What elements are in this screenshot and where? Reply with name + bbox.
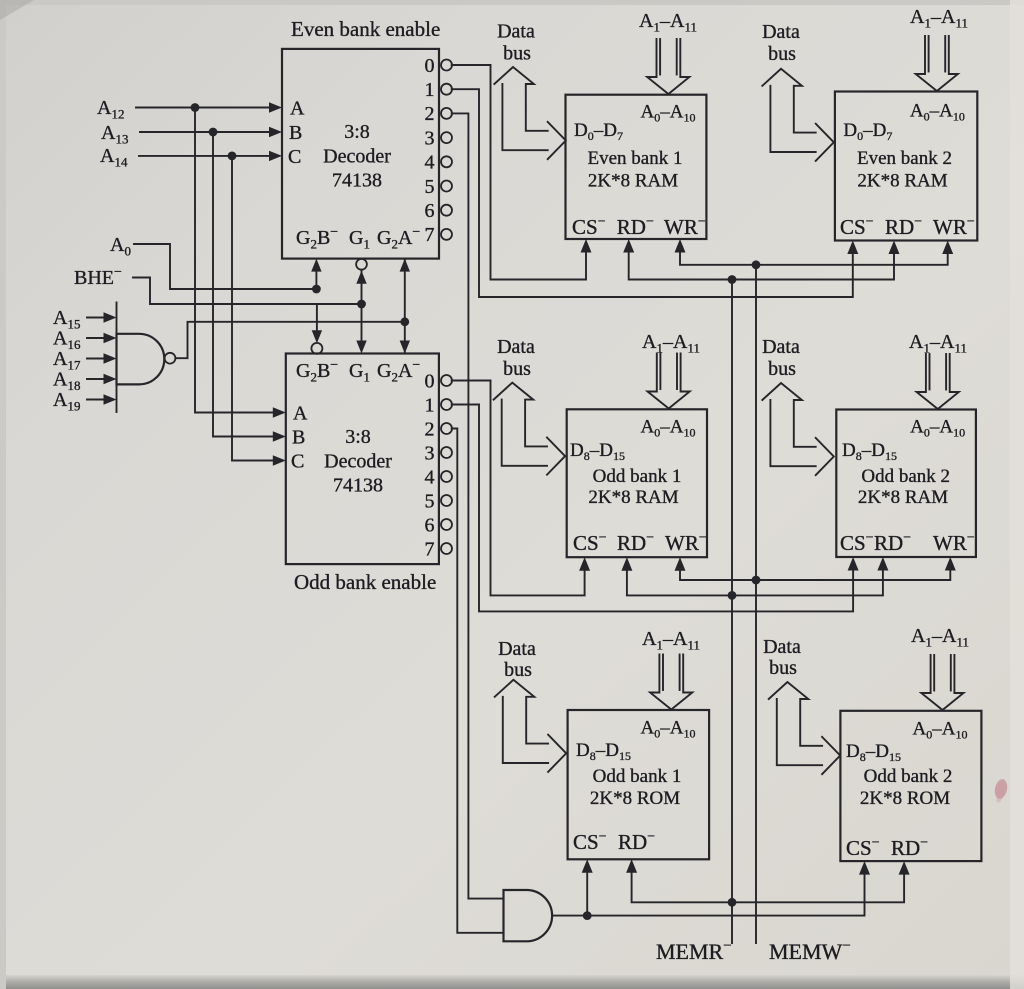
net AND output to ROM CS pins xyxy=(554,859,870,920)
svg-text:0: 0 xyxy=(425,370,435,392)
svg-text:Data: Data xyxy=(497,21,535,43)
U2 output bubbles xyxy=(441,375,452,554)
svg-text:3:8: 3:8 xyxy=(345,426,371,448)
svg-text:bus: bus xyxy=(503,358,531,380)
svg-text:bus: bus xyxy=(503,43,531,65)
net U1 pin1 to Even bank 2 CS xyxy=(452,89,859,297)
address bus arrow A1-A11 at Even bank 1 xyxy=(647,39,689,94)
svg-text:3:8: 3:8 xyxy=(344,121,370,143)
svg-text:C: C xyxy=(288,146,301,168)
svg-text:Decoder: Decoder xyxy=(324,451,392,473)
wire A14 to U1.C and U2.C xyxy=(139,151,286,466)
RAM chip Odd bank 1 xyxy=(567,409,707,557)
svg-text:Data: Data xyxy=(497,336,535,358)
decoder U2 74138 odd bank xyxy=(286,354,439,565)
wire A13 to U1.B and U2.B xyxy=(140,127,286,442)
decoder U1 74138 even bank xyxy=(282,49,439,259)
net WR even banks xyxy=(675,239,954,269)
net MEMR vertical xyxy=(728,280,737,944)
svg-text:74138: 74138 xyxy=(333,475,383,497)
svg-text:7: 7 xyxy=(425,224,435,246)
address bus arrow A1-A11 at Odd bank 1 RAM xyxy=(648,354,690,409)
svg-text:1: 1 xyxy=(425,79,435,101)
svg-text:Even bank enable: Even bank enable xyxy=(291,17,440,41)
labels A15-A19 xyxy=(53,307,81,414)
svg-text:Odd bank 1: Odd bank 1 xyxy=(593,466,682,487)
svg-text:Odd bank 1: Odd bank 1 xyxy=(593,766,682,787)
svg-text:Even bank 2: Even bank 2 xyxy=(857,148,952,169)
svg-text:Data: Data xyxy=(763,636,801,658)
U2 G2B bubble xyxy=(311,343,322,354)
data bus arrow at Odd bank 2 RAM xyxy=(762,383,834,475)
net U2 pin0 to Odd bank 1 CS xyxy=(452,381,590,596)
net U1 pin0 to Even bank 1 CS xyxy=(452,65,592,280)
svg-text:2K*8 RAM: 2K*8 RAM xyxy=(857,171,947,192)
address bus arrow A1-A11 at Even bank 2 xyxy=(916,36,958,91)
net RD ROM banks xyxy=(626,859,910,902)
net G2A (NAND out, both decoders) xyxy=(400,259,410,354)
svg-text:A: A xyxy=(293,403,308,425)
svg-text:Odd bank enable: Odd bank enable xyxy=(294,570,436,594)
RAM chip Even bank 2 xyxy=(835,92,977,241)
wire A0 to U1 G2B xyxy=(134,244,321,293)
U1 output bubbles xyxy=(441,60,452,240)
svg-text:2: 2 xyxy=(425,418,435,440)
svg-text:bus: bus xyxy=(769,657,797,679)
svg-text:bus: bus xyxy=(504,659,532,681)
svg-text:MEMR−: MEMR− xyxy=(656,938,732,964)
svg-text:2K*8 RAM: 2K*8 RAM xyxy=(588,171,678,192)
svg-text:bus: bus xyxy=(768,358,796,380)
wire NAND output to G2A line xyxy=(176,317,410,358)
net MEMW vertical xyxy=(755,265,757,943)
svg-text:0: 0 xyxy=(425,55,435,77)
svg-text:B: B xyxy=(292,427,305,449)
wire BHE to G1 line and U2 G2B xyxy=(133,278,366,344)
net U1 pin2 to AND gate input 1 xyxy=(452,113,504,898)
svg-text:C: C xyxy=(291,451,304,473)
data bus arrow at Odd bank 1 RAM xyxy=(494,383,566,475)
svg-text:MEMW−: MEMW− xyxy=(769,938,851,964)
svg-text:74138: 74138 xyxy=(332,170,382,192)
net U2 pin1 to Odd bank 2 CS xyxy=(452,405,859,612)
svg-text:Odd bank 2: Odd bank 2 xyxy=(861,466,950,487)
svg-text:2K*8 RAM: 2K*8 RAM xyxy=(858,487,948,508)
svg-text:6: 6 xyxy=(425,514,435,536)
address bus arrow A1-A11 at Odd bank 1 ROM xyxy=(650,655,692,710)
data bus arrow at Odd bank 1 ROM xyxy=(495,680,567,772)
svg-text:A: A xyxy=(290,98,305,120)
ROM chip Odd bank 1 xyxy=(568,710,710,859)
svg-text:Data: Data xyxy=(762,21,800,43)
RAM chip Odd bank 2 xyxy=(836,410,976,558)
data bus arrow at Even bank 2 xyxy=(762,69,834,161)
address bus arrow A1-A11 at Odd bank 2 RAM xyxy=(917,354,959,409)
NAND gate G1 xyxy=(117,303,176,413)
svg-text:3: 3 xyxy=(425,442,435,464)
svg-text:Even bank 1: Even bank 1 xyxy=(588,148,683,169)
net RD even banks xyxy=(623,239,899,284)
wires A15-A19 into NAND input bar xyxy=(87,312,117,404)
RAM chip Even bank 1 xyxy=(566,95,707,239)
svg-text:5: 5 xyxy=(425,490,435,512)
svg-text:B: B xyxy=(289,122,302,144)
data bus arrow at Even bank 1 xyxy=(494,67,566,159)
svg-text:5: 5 xyxy=(425,176,435,198)
svg-text:2K*8 ROM: 2K*8 ROM xyxy=(590,788,680,809)
svg-text:2: 2 xyxy=(425,103,435,125)
net G1 (both decoders) xyxy=(356,259,367,354)
red ink smudge xyxy=(993,778,1009,800)
svg-text:Odd bank 2: Odd bank 2 xyxy=(864,766,953,787)
AND gate G2 xyxy=(504,890,553,941)
net U1 G2B (A0) xyxy=(311,259,321,289)
net RD odd banks xyxy=(621,557,888,600)
wire A12 to U1.A and U2.A xyxy=(136,102,286,417)
svg-text:1: 1 xyxy=(425,394,435,416)
svg-text:2K*8 RAM: 2K*8 RAM xyxy=(588,487,678,508)
svg-text:6: 6 xyxy=(425,200,435,222)
svg-text:2K*8 ROM: 2K*8 ROM xyxy=(860,788,950,809)
svg-text:D0–D7: D0–D7 xyxy=(574,120,623,143)
svg-text:bus: bus xyxy=(768,43,796,65)
svg-text:Data: Data xyxy=(762,336,800,358)
svg-text:Decoder: Decoder xyxy=(323,146,391,168)
svg-text:4: 4 xyxy=(425,152,435,174)
data bus arrow at Odd bank 2 ROM xyxy=(769,682,841,774)
net WR odd banks xyxy=(675,557,956,584)
net U2 pin2 to AND gate input 2 xyxy=(452,429,504,933)
svg-text:D0–D7: D0–D7 xyxy=(843,120,892,143)
svg-text:Data: Data xyxy=(498,638,536,660)
svg-text:4: 4 xyxy=(425,466,435,488)
svg-text:3: 3 xyxy=(425,127,435,149)
ROM chip Odd bank 2 xyxy=(840,711,981,861)
svg-text:7: 7 xyxy=(425,538,435,560)
address bus arrow A1-A11 at Odd bank 2 ROM xyxy=(921,655,963,710)
U2 output pin digits 0-7 xyxy=(425,370,435,560)
U1 output pin digits 0-7 xyxy=(425,55,435,246)
